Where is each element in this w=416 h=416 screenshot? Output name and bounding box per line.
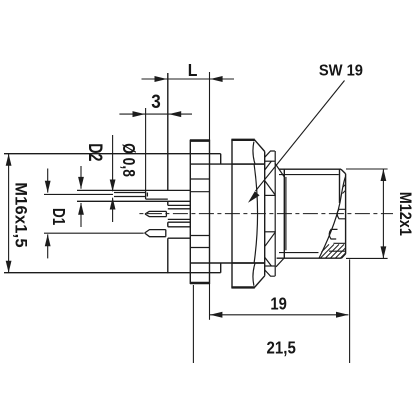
- svg-text:3: 3: [151, 91, 161, 112]
- hex nut SW19: [231, 139, 264, 287]
- insert lines: [190, 179, 209, 248]
- body outer line top (M16 extension): [4, 153, 221, 155]
- dimension 19: [210, 72, 349, 320]
- thread profile tongue 2: [329, 229, 337, 239]
- dimension 3: [119, 108, 192, 190]
- centerline: [139, 213, 393, 215]
- svg-text:SW 19: SW 19: [319, 62, 363, 79]
- lower contact base: [168, 227, 191, 238]
- svg-text:D2: D2: [84, 143, 105, 161]
- dimension M16x1,5: [6, 154, 12, 273]
- dimension 0.8 arrows: [110, 135, 116, 222]
- SW19 leader: [248, 81, 345, 203]
- dimension M12x1: [346, 169, 388, 258]
- flange: [190, 140, 210, 283]
- washer-barrel joint line: [285, 177, 287, 250]
- upper pin sleeve and base: [77, 190, 190, 201]
- serrated washer ring: [265, 151, 285, 276]
- svg-text:M16x1,5: M16x1,5: [12, 182, 31, 247]
- middle pin: [145, 211, 166, 216]
- dimension D2 arrows: [78, 166, 84, 227]
- thread root lines: [279, 175, 339, 253]
- neck lines: [190, 164, 264, 263]
- svg-text:21,5: 21,5: [267, 339, 296, 358]
- lower pin: [145, 230, 166, 237]
- dimension 21,5 extension lines: [193, 259, 349, 363]
- body rear face: [167, 73, 169, 273]
- svg-text:M12x1: M12x1: [396, 192, 414, 236]
- svg-text:L: L: [188, 60, 198, 80]
- body outer line bottom (M16 extension): [4, 272, 221, 274]
- svg-text:D1: D1: [49, 208, 68, 225]
- dimension L: [142, 76, 235, 82]
- section break line: [319, 177, 346, 259]
- hatching top sliver: [343, 184, 346, 193]
- insert collar lines: [190, 192, 209, 236]
- dimension D1 arrows: [44, 169, 144, 259]
- hatching bottom: [321, 244, 346, 258]
- middle contact base: [168, 205, 191, 222]
- upper pin (thin, 0.8): [114, 193, 146, 197]
- svg-text:19: 19: [270, 294, 286, 314]
- thread profile tongue 1: [337, 209, 345, 219]
- barrel M12: [277, 169, 346, 258]
- svg-text:Ø 0,8: Ø 0,8: [119, 143, 139, 177]
- neck step verticals: [220, 154, 222, 273]
- section line: [329, 243, 346, 251]
